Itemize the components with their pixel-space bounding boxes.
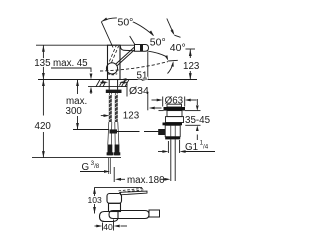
pop-up knob — [167, 104, 182, 107]
short line right of arrow — [168, 59, 178, 62]
arrow 135 bottom — [42, 73, 45, 80]
G1 1/4 dim ext lines — [167, 141, 169, 153]
dim 40 — [102, 223, 104, 231]
svg-text:123: 123 — [123, 111, 140, 122]
arc 40 deg piece upper right — [167, 19, 174, 34]
rod clamp on pop-up — [158, 129, 165, 135]
dimension 123 middle arrows — [101, 115, 104, 117]
arc 50 deg right lower tail — [148, 51, 167, 57]
pop-up body below deck — [165, 125, 180, 136]
svg-text:Ø34: Ø34 — [129, 85, 149, 97]
svg-text:300: 300 — [66, 106, 83, 117]
arrow 420 top — [42, 80, 45, 87]
bottom view: top reference line — [95, 186, 143, 188]
mounting nut — [106, 90, 122, 93]
svg-text:50°: 50° — [118, 17, 134, 29]
tailpipe — [170, 139, 172, 181]
svg-text:max.45: max.45 — [53, 58, 88, 69]
max.180 arrows — [115, 178, 121, 181]
arrow 135 top — [42, 45, 45, 52]
pop-up body bottom band — [165, 137, 180, 140]
svg-text:Ø63: Ø63 — [165, 95, 184, 106]
dim 35-45 arrows — [196, 99, 198, 105]
G3/8 leader — [80, 171, 105, 173]
hose connection bolts G3/8 — [108, 145, 113, 156]
pop-up body through deck — [166, 117, 184, 123]
bottom reference line (hose ends) — [32, 157, 121, 159]
lever neck lower edge — [120, 45, 134, 51]
threaded shank hatched — [109, 95, 112, 122]
svg-text:123: 123 — [183, 61, 200, 72]
svg-text:40: 40 — [103, 222, 113, 232]
bottom view lever rod — [121, 191, 148, 195]
dimension 123 right — [186, 48, 196, 50]
deck hatching left — [96, 80, 106, 87]
bottom view faucet: handle dome — [107, 194, 122, 204]
arc 40 deg lower piece — [168, 63, 174, 74]
extension line lower segment — [147, 92, 149, 111]
dashed lever-down axis line — [100, 62, 168, 71]
pop-up rod junction — [110, 129, 118, 133]
lever tip box — [135, 45, 149, 52]
top reference line — [36, 44, 135, 46]
hose threaded tips — [109, 158, 111, 174]
dimension 51 — [147, 52, 149, 80]
max.300 bottom reference line — [73, 129, 109, 131]
svg-text:35-45: 35-45 — [185, 115, 211, 126]
max.300 dimension line — [77, 80, 79, 95]
bottom view spout — [109, 211, 149, 219]
deck bottom line — [88, 86, 127, 88]
lever solid arm — [116, 47, 135, 66]
arrowhead 40 deg lower — [171, 61, 174, 66]
svg-text:max.180: max.180 — [127, 175, 165, 186]
bottom view body — [109, 203, 121, 211]
dimension 135/420 vertical line — [42, 45, 44, 115]
svg-text:40°: 40° — [170, 42, 186, 54]
svg-text:51: 51 — [137, 70, 148, 81]
svg-text:103: 103 — [88, 195, 103, 205]
arrow 420 bottom — [42, 151, 45, 158]
faucet body — [108, 45, 121, 79]
pop-up horizontal rod — [117, 131, 159, 133]
angle ref line upper-left — [101, 22, 113, 48]
bottom view dashed lever alt position — [119, 188, 145, 192]
max.180 ext line left — [113, 167, 115, 182]
deck hatching right — [120, 80, 130, 87]
bottom view base plate — [100, 212, 119, 222]
pop-up locknut dark band — [163, 123, 183, 126]
svg-text:135: 135 — [34, 58, 51, 69]
svg-text:420: 420 — [35, 121, 52, 132]
dashed arc under ball — [108, 74, 118, 75]
dim 103 — [94, 187, 96, 196]
bottom view aerator — [149, 210, 160, 217]
pop-up waste: dim O63 — [162, 97, 164, 107]
hose lines to bolts — [108, 122, 119, 145]
svg-text:50°: 50° — [150, 37, 166, 49]
angle ref line at lever box upper — [130, 36, 135, 45]
dashed lever up position — [109, 45, 118, 62]
arrowhead 50 deg right arc end — [165, 55, 168, 61]
ball joint circle — [106, 63, 117, 74]
arc 50 deg top — [102, 18, 154, 36]
shank through deck with arrows — [108, 80, 110, 90]
pop-up deck lines — [185, 110, 201, 112]
max.45 leader and arrows — [51, 68, 91, 72]
tailpipe inside body — [171, 125, 175, 136]
leader line O34 — [125, 82, 127, 96]
deck top line — [38, 79, 197, 81]
shank stub lines below nut — [110, 93, 118, 95]
